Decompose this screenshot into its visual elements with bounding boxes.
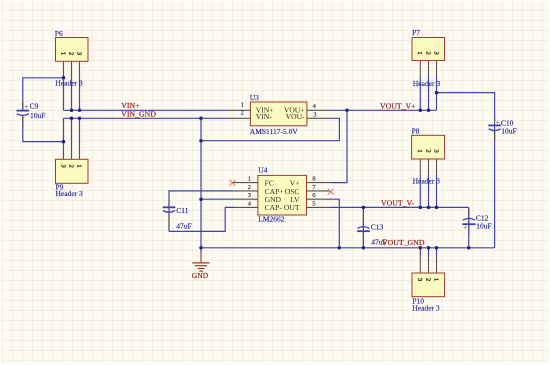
junction P6 pin3 VIN+ [78,109,82,113]
svg-text:1: 1 [416,149,423,152]
junction P7 pin3 C10 tee [435,91,439,95]
wire U4 GND pin to GND net [201,198,234,200]
svg-text:10uF: 10uF [476,222,491,231]
junction P8 pin3 [435,206,439,210]
wire P8 pin1 vertical [419,176,421,208]
wire P9 pin2 stub [71,118,73,142]
svg-text:CAP-: CAP- [265,203,283,212]
wire P6 pin3 stub [79,78,81,111]
capacitor C11 [163,200,192,231]
wire VOUT_V- horizontal [330,206,469,208]
junction GND bus left [199,246,203,250]
wire P8 pin2 vertical [428,176,430,208]
junction P9 pin1 C9 [62,140,66,144]
net label VIN+ [121,101,140,110]
header P8 [412,127,445,186]
junction LV GND bus [338,246,342,250]
junction P9 pin3 VIN_GND [78,117,82,121]
svg-text:OUT: OUT [284,203,300,212]
svg-text:3: 3 [313,112,316,119]
wire C12 vertical [468,207,470,247]
net label VIN_GND [121,110,156,119]
svg-text:U3: U3 [250,93,259,102]
svg-text:C13: C13 [371,222,384,231]
wire P7 pin3 to C10 [437,93,495,121]
regulator U3 AMS1117-5.0V [227,93,330,136]
junction P10 pin3 [435,246,439,250]
wire VOUT_GND bus [201,247,495,249]
capacitor C13 [357,210,387,246]
svg-text:1: 1 [432,278,439,281]
junction C12 bottom [467,246,471,250]
svg-text:Header 3: Header 3 [413,177,441,186]
net label VOUT_V+ [380,101,416,110]
wire P6 pin1 to C9 top jog [23,78,64,110]
svg-text:2: 2 [424,278,431,281]
svg-text:1: 1 [75,164,82,167]
svg-text:VIN-: VIN- [256,112,272,121]
wire VOUT_V+ horizontal [330,109,437,111]
junction P8 pin1 [419,206,423,210]
junction GND VOU- [199,139,203,143]
svg-text:VOUT_V+: VOUT_V+ [380,101,416,110]
header P7 [412,28,445,88]
svg-text:Header 3: Header 3 [412,303,440,312]
svg-text:AMS1117-5.0V: AMS1117-5.0V [250,127,299,136]
wire U3 VOU- to GND net [201,118,339,140]
wire P10 pin2 vertical [428,248,430,257]
svg-text:VOUT_GND: VOUT_GND [382,238,425,247]
svg-text:C9: C9 [30,102,39,111]
svg-text:1: 1 [59,52,66,55]
svg-text:C11: C11 [176,206,188,215]
no-ERC marker on U4 pin7 [328,189,334,195]
svg-text:2: 2 [424,149,431,152]
svg-text:8: 8 [312,176,315,183]
net label VOUT_V- [381,199,414,208]
wire P8 pin3 vertical [436,176,438,208]
junction C13 bottom [362,246,366,250]
header P10 [412,257,445,313]
svg-text:U4: U4 [258,166,267,175]
svg-text:VOUT_V-: VOUT_V- [381,199,414,208]
junction P7 pin2 [427,109,431,113]
svg-text:P7: P7 [412,28,420,37]
wire P10 pin3 vertical [436,248,438,257]
wire C11 bottom to CAP- [169,207,234,231]
header P6 [55,29,88,87]
junction P8 pin2 [427,206,431,210]
header P9 [56,142,89,199]
wire P10 pin1 vertical [419,248,421,257]
svg-text:2: 2 [67,52,74,55]
svg-text:2: 2 [241,110,244,117]
junction GND VIN_GND [199,117,203,121]
svg-text:P8: P8 [412,127,420,136]
net label VOUT_GND [382,238,425,247]
svg-text:Header 3: Header 3 [413,79,441,88]
svg-text:1: 1 [248,176,251,183]
svg-text:5: 5 [312,200,315,207]
capacitor C9 [17,102,46,128]
wire CAP+ to C11 [169,191,234,232]
svg-text:VOU-: VOU- [286,112,305,121]
wire P7 pin2 vertical [428,77,430,110]
wire C13 vertical [362,207,364,247]
junction C13 top [362,206,366,210]
wire V+ riser to U4 pin8 [330,110,347,182]
junction P7 pin1 [419,109,423,113]
junction P6 pin1 C9 [62,76,66,80]
svg-text:1: 1 [241,101,244,108]
junction P6 pin2 VIN+ [70,109,74,113]
wire LV to GND bus [330,199,339,248]
svg-text:1: 1 [416,51,423,54]
svg-text:Header 3: Header 3 [56,189,84,198]
junction P10 pin1 [419,246,423,250]
wire VIN_GND horizontal [64,117,228,119]
capacitor C10 [488,117,516,140]
wire C10 bottom to GND bus [494,126,496,248]
wire VIN+ horizontal [64,109,228,111]
svg-text:10uF: 10uF [30,111,45,120]
svg-text:+: + [463,224,467,232]
junction GND U4pin3 [199,197,203,201]
charge pump U4 LM2662 [233,166,330,224]
wire P7 pin3 vertical [436,77,438,110]
svg-text:2: 2 [67,164,74,167]
svg-text:+: + [496,119,500,127]
wire GND vertical [200,118,202,248]
svg-text:Header 3: Header 3 [55,78,83,87]
svg-text:2: 2 [424,51,431,54]
ground symbol [192,248,210,280]
wire P9 pin3 stub [79,118,81,142]
svg-text:LM2662: LM2662 [258,214,285,223]
svg-text:10uF: 10uF [501,127,516,136]
svg-text:P6: P6 [55,29,63,38]
capacitor C12 [462,209,491,234]
svg-text:GND: GND [192,271,209,280]
svg-text:+: + [24,103,28,111]
no-ERC marker on U4 pin1 [230,180,236,186]
svg-text:6: 6 [312,192,315,199]
wire P6 pin1 vertical [63,78,65,111]
wire P6 pin2 stub [71,78,73,111]
wire P7 pin1 vertical [419,77,421,110]
svg-text:47uF: 47uF [176,221,191,230]
svg-text:VIN_GND: VIN_GND [121,110,156,119]
wire C9 bottom to P9 pin1 jog [23,116,64,142]
wire P9 pin1 vertical [63,118,65,141]
junction VOUT_V+ riser [345,109,349,113]
svg-text:2: 2 [248,184,251,191]
junction P10 pin2 [427,246,431,250]
junction P9 pin2 VIN_GND [70,117,74,121]
svg-text:3: 3 [248,192,251,199]
